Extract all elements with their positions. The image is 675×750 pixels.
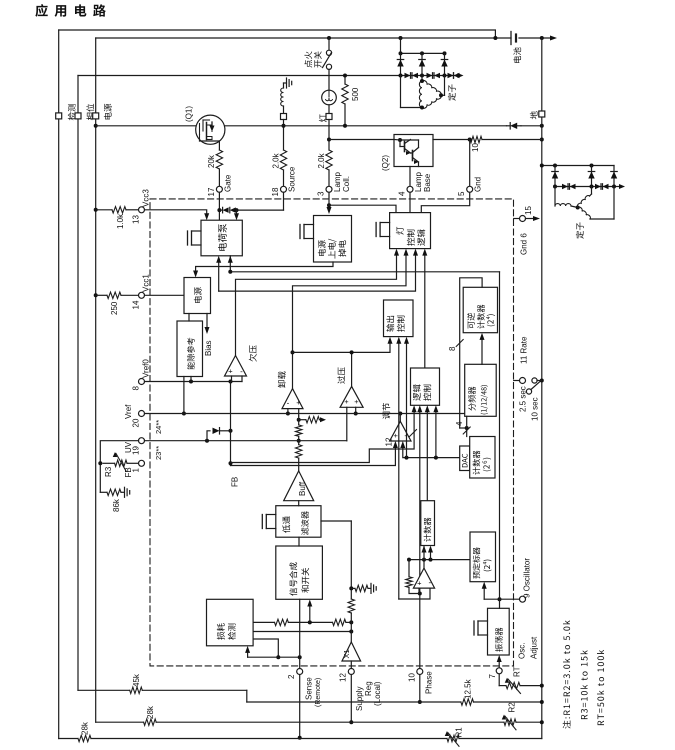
resistor 20k gate <box>216 150 222 169</box>
block 逻辑控制 logic control <box>411 368 440 405</box>
wire to pin 17 <box>218 169 220 186</box>
svg-text:-: - <box>240 367 243 376</box>
wire OV output up <box>351 352 353 386</box>
wire to pin 18 <box>283 170 285 186</box>
diode bridge2 d3 <box>613 166 615 187</box>
resistor 10 <box>470 136 482 142</box>
block 低通滤波器 low pass filter <box>276 506 321 538</box>
node x1 bleed <box>349 586 353 590</box>
resistor 86k to ground <box>100 491 107 493</box>
svg-text:12: 12 <box>385 437 394 446</box>
potentiometer R2 <box>504 719 516 725</box>
svg-text:Supply: Supply <box>355 687 364 711</box>
wire dump minus to vref line <box>287 409 289 414</box>
svg-text:Coll.: Coll. <box>342 176 351 192</box>
svg-text:Source: Source <box>288 166 297 192</box>
wire powerupdown to power block <box>196 262 333 271</box>
wire pin18 rail to pump <box>236 209 284 211</box>
wire pin13 feed <box>94 208 98 212</box>
wire updown top jog <box>460 278 482 428</box>
IC boundary dashed box <box>150 199 514 666</box>
wire 8bus to 4bus <box>460 427 467 429</box>
wire net-detect vertical x=58.7 <box>58 30 60 739</box>
wire coil to terminal <box>283 106 285 113</box>
node source rail junction <box>282 124 286 128</box>
svg-text:Gate: Gate <box>224 174 233 192</box>
block 损耗检测 loss detection <box>207 599 254 646</box>
wire power-bandgap <box>188 314 190 322</box>
svg-text:2: 2 <box>287 674 296 679</box>
svg-text:-: - <box>287 399 290 408</box>
svg-text:UV: UV <box>124 441 133 453</box>
pin 2 Sense Remote <box>297 669 303 675</box>
pin 12 Supply Reg Local <box>348 669 354 675</box>
terminal 相位 <box>75 113 81 119</box>
svg-text:14: 14 <box>132 300 141 309</box>
potentiometer R1 <box>447 735 459 741</box>
wire pin3 branch to lamp logic <box>327 203 331 207</box>
diode pair bridge1 mid b <box>422 75 445 77</box>
wire loss line3 y=639 <box>253 639 278 657</box>
svg-text:23**: 23** <box>154 446 163 460</box>
terminal 检测 <box>56 113 62 119</box>
block 振荡器 oscillator <box>488 608 510 655</box>
wire step to 702 <box>246 690 248 702</box>
svg-text:R1: R1 <box>455 727 464 738</box>
note text <box>563 620 571 728</box>
block 电源上电/掉电 <box>314 216 352 263</box>
wire divider to updown <box>481 340 483 365</box>
node gate-pump junction <box>217 208 221 212</box>
wire pin2 vertical <box>299 599 301 668</box>
wire arrow battery feed <box>550 36 557 41</box>
op-amp X1 supply buffer <box>342 642 361 661</box>
bus line2 y=279.3 from UV comparator <box>236 256 397 356</box>
wire x1 chain top <box>321 520 351 522</box>
wire logic a2 to phase node <box>419 412 421 594</box>
diode bridge1 d3 <box>444 53 446 75</box>
svg-text:RT: RT <box>513 666 522 677</box>
bus tick 12 <box>410 430 417 437</box>
svg-text:Bias: Bias <box>204 340 213 356</box>
op-amp 卸载 dump comparator <box>282 389 303 409</box>
wire to logic control a1 <box>231 412 415 463</box>
svg-text:28k: 28k <box>146 705 155 719</box>
wire Q2 emitter to pin4 <box>409 167 411 187</box>
pin 13 Vcc3 <box>139 207 145 213</box>
diode bridge1 d1 <box>400 53 402 75</box>
diode bridge2 d1 <box>554 166 556 187</box>
wire pin5 to lamp logic <box>421 192 469 212</box>
wire loss line2 y=631.5 <box>253 631 351 633</box>
svg-text:17: 17 <box>207 187 216 196</box>
svg-text:Reg: Reg <box>364 681 373 696</box>
bus tick 4 <box>463 427 470 434</box>
wire pin12 down <box>350 675 352 723</box>
bridge2 top bus y=165.5 <box>542 165 614 167</box>
pin 17 Gate <box>216 186 222 192</box>
wire drain rail y=125.8 <box>94 124 98 128</box>
wire pin7 rt rail y=685.6 <box>498 675 500 686</box>
svg-text:15: 15 <box>524 206 533 215</box>
svg-text:10: 10 <box>408 673 417 682</box>
wire osc top <box>499 599 501 608</box>
pin 8 Vref0 <box>139 379 145 385</box>
wire lamp to Q2 collector y=139.5 <box>329 139 394 141</box>
pin 1 FB <box>139 460 145 466</box>
svg-text:Base: Base <box>423 173 432 192</box>
pin 9 Oscillator <box>520 596 526 602</box>
svg-text:Vcc3: Vcc3 <box>142 189 151 207</box>
resistor x1 bleed to ground <box>351 587 355 589</box>
wire DAC to regulator minus <box>403 448 460 458</box>
title 应用电路 <box>35 4 105 17</box>
wire pin14 to power block <box>145 294 185 296</box>
wire rail y=702 <box>247 701 461 703</box>
wire arrow bridge2 out <box>614 186 620 188</box>
svg-text:4: 4 <box>455 421 464 426</box>
svg-text:5: 5 <box>457 191 466 196</box>
svg-text:2.0k: 2.0k <box>272 152 281 168</box>
wire pin8 vref0 line <box>145 381 243 383</box>
svg-text:R2: R2 <box>508 702 517 713</box>
svg-text:8: 8 <box>132 386 141 391</box>
wire pin5 up <box>469 140 471 187</box>
wire pin17 into charge pump <box>218 192 220 220</box>
svg-text:20k: 20k <box>207 154 216 168</box>
diode bridge2 d2 <box>591 166 593 187</box>
svg-text:Lamp: Lamp <box>414 171 423 192</box>
Y stator winding 定子 <box>554 187 556 207</box>
wire counter 4bus <box>466 416 468 436</box>
transistor Q2 darlington <box>394 135 433 167</box>
op-amp phase schmitt <box>413 568 434 588</box>
svg-text:X1: X1 <box>342 649 351 658</box>
svg-text:28k: 28k <box>81 721 90 735</box>
wire outputcontrol a2 schmitt loop <box>398 344 400 600</box>
svg-text:Vref: Vref <box>124 404 133 419</box>
wire FB line to regulator <box>231 448 396 466</box>
svg-text:86k: 86k <box>112 498 121 512</box>
wire osc clock line <box>484 598 499 600</box>
wire gate down <box>218 141 220 150</box>
wire bandgap to vref line <box>183 377 185 414</box>
wire loss to signal block <box>309 606 311 622</box>
wire OV plus from divider <box>299 440 347 442</box>
diode pump d1 <box>219 209 222 211</box>
svg-text:2.0k: 2.0k <box>317 152 326 168</box>
block 电荷泵 charge pump <box>201 220 242 256</box>
pin 4 Lamp Base <box>407 186 413 192</box>
ground stator coil <box>286 78 288 88</box>
wire sense feedback <box>248 656 300 658</box>
svg-text:11 Rate: 11 Rate <box>520 336 529 364</box>
op-amp 过压 overvoltage comparator <box>340 386 363 407</box>
label 定子 bridge2 <box>576 222 584 238</box>
resistor 500 lamp shunt <box>344 76 346 85</box>
svg-text:Adjust: Adjust <box>530 636 539 659</box>
wire pin13 to charge pump <box>145 210 207 213</box>
svg-text:250: 250 <box>110 301 119 315</box>
wire schmitt output rail y=559.6 <box>409 559 470 561</box>
wire Q2 collector rail to bus <box>433 139 470 141</box>
svg-text:24**: 24** <box>154 420 163 434</box>
wire lpf-signal <box>298 537 300 546</box>
pin 10 Phase <box>417 669 423 675</box>
svg-text:(Q2): (Q2) <box>381 155 390 171</box>
svg-text:Vref0: Vref0 <box>142 359 151 378</box>
wire pin3 into IC <box>328 192 330 207</box>
wire divider to buffer <box>298 458 300 471</box>
svg-text:FB: FB <box>231 477 240 487</box>
svg-text:18: 18 <box>271 187 280 196</box>
op-amp 调节 regulator <box>390 421 411 441</box>
transistor Q1 power MOSFET <box>196 115 225 144</box>
svg-text:+: + <box>296 398 301 407</box>
node drain rail at bus <box>540 124 544 128</box>
wire switch to lamp <box>328 70 330 91</box>
node ignition tap <box>327 36 331 40</box>
op-amp 欠压 undervoltage comparator <box>225 356 247 377</box>
wire pin4 into IC <box>409 192 411 212</box>
pin 3 Lamp Coll. <box>326 186 332 192</box>
svg-text:10: 10 <box>471 143 480 152</box>
wire Vref rail y=413.5 <box>145 413 465 415</box>
wire rail 45k y=690.3 <box>78 689 130 691</box>
resistor 1.0k <box>112 207 126 213</box>
pin 14 Vcc1 <box>139 292 145 298</box>
wire top y=30 <box>59 30 496 38</box>
svg-text:1.0k: 1.0k <box>116 213 125 229</box>
wire x1 to pin12 <box>350 661 352 669</box>
wire UV inputs <box>231 376 233 382</box>
wire logic-to-lampcontrol <box>424 256 426 369</box>
diode bridge1 d2 <box>421 53 423 75</box>
svg-text:2.5 sec: 2.5 sec <box>519 386 528 412</box>
diode reverse battery <box>510 123 517 129</box>
wire FB junction vertical <box>230 382 232 466</box>
diode pump d2 <box>230 207 236 213</box>
resistor 2.0k source <box>280 150 286 170</box>
node lamp-Q2 junction <box>327 138 331 142</box>
node dump branch <box>291 350 295 354</box>
switch 点火开关 <box>328 38 330 50</box>
svg-text:(Q1): (Q1) <box>185 106 194 122</box>
svg-text:45k: 45k <box>132 673 141 687</box>
wire outputcontrol a3 <box>406 344 408 458</box>
svg-text:+: + <box>344 397 349 406</box>
block 预定标器 prescaler <box>470 532 496 582</box>
wire battery rail y=38 <box>96 37 511 39</box>
node bridge2 mid junctions <box>553 185 557 189</box>
svg-text:500: 500 <box>351 87 360 101</box>
wire counter clock arrows <box>422 546 427 553</box>
bus tick 8 <box>456 340 463 347</box>
wire phase rail y=75.5 <box>78 75 401 77</box>
label 电池 <box>513 47 521 63</box>
diode pair bridge1 out <box>445 75 460 77</box>
junction dots top rail <box>399 36 403 40</box>
svg-text:9 Oscillator: 9 Oscillator <box>523 558 532 598</box>
wire pin10 vertical <box>419 596 421 669</box>
svg-text:Lamp: Lamp <box>333 171 342 192</box>
wire schmitt out <box>423 560 425 569</box>
wire bias <box>206 314 208 328</box>
wire bus1 right leg <box>499 272 501 599</box>
wire bridge1 col1 top <box>400 38 402 53</box>
pin 15 / Gnd 6 <box>514 218 520 220</box>
potentiometer R3 <box>127 462 139 464</box>
wire logic a4 to dac line <box>435 412 437 458</box>
wire rail 28k y=722.2 <box>96 721 144 723</box>
svg-text:Sense: Sense <box>305 677 314 700</box>
wire arrow bridge1 phase out <box>458 73 464 78</box>
resistor 2.0k lamp coll <box>326 150 332 170</box>
svg-text:(Remote): (Remote) <box>315 678 322 707</box>
resistor divider r1 <box>296 425 302 436</box>
svg-text:+: + <box>354 397 359 406</box>
svg-text:Gnd: Gnd <box>474 177 483 192</box>
wire lpf to buff <box>298 501 300 506</box>
block DAC <box>460 446 470 471</box>
block 可逆计数器 up-down counter <box>463 287 497 332</box>
op-amp Buff <box>284 471 314 501</box>
svg-text:R3: R3 <box>104 466 113 477</box>
resistor x1 series <box>348 599 354 613</box>
block 计数器2e6 <box>470 437 495 479</box>
node vref-regulator <box>398 412 402 416</box>
node phase input <box>418 592 422 596</box>
svg-text:4: 4 <box>398 191 407 196</box>
wire loss line1 y=622.4 <box>253 621 274 623</box>
block 输出控制 output control <box>384 300 414 337</box>
bridge1 top bus y=53.4 <box>401 52 445 54</box>
svg-text:8: 8 <box>448 346 457 351</box>
pin 11 Rate selector <box>514 380 520 382</box>
node divider mid <box>297 439 301 443</box>
resistor 250 <box>107 292 121 298</box>
wire terminal to drain rail <box>283 120 285 151</box>
wire dump to output control <box>293 344 391 353</box>
wire lamp terminal down <box>328 120 330 151</box>
wire pin14 feed <box>94 293 98 297</box>
node bridge1 mid junctions <box>399 74 403 78</box>
wire bandgap to vref0 line <box>190 377 192 382</box>
block 电源 power <box>184 278 211 314</box>
svg-text:-: - <box>428 578 431 587</box>
wire logic a3 to counter <box>426 412 428 501</box>
wire pump top feed <box>236 210 238 213</box>
svg-text:10 sec: 10 sec <box>531 397 540 421</box>
svg-text:+: + <box>394 431 399 440</box>
node bus-q2rail <box>540 138 544 142</box>
label 定子 bridge1 <box>448 84 456 100</box>
resistor divider bleed <box>299 419 306 421</box>
wire ground bus x=541.8 <box>541 38 543 739</box>
wire pin19 external to divider <box>100 441 138 493</box>
delta stator winding 定子 <box>400 76 402 108</box>
svg-text:+: + <box>228 367 233 376</box>
bus line4 y=291.1 pump <box>219 256 416 292</box>
resistor schmitt hysteresis <box>408 560 410 577</box>
terminal 地 <box>539 111 545 117</box>
svg-text:13: 13 <box>132 215 141 224</box>
wire pump out arrow1 <box>229 256 231 272</box>
block 信号合成和开关 signal synth and switch <box>276 546 323 599</box>
svg-text:Osc.: Osc. <box>518 643 527 659</box>
wire pin18 down into IC <box>283 192 285 210</box>
wire schmitt minus loop <box>399 588 430 599</box>
wire lamp to terminal <box>328 105 330 113</box>
svg-text:Gnd 6: Gnd 6 <box>520 233 529 255</box>
wire regulator output <box>399 414 401 422</box>
pin 18 Source <box>281 186 287 192</box>
diode pair bridge2 b <box>592 186 615 188</box>
diode pair bridge1 mid a <box>401 75 423 77</box>
pin 20 Vref <box>139 411 145 417</box>
pin 5 Gnd <box>467 186 473 192</box>
node divider top <box>297 418 301 422</box>
potentiometer RT <box>506 682 520 688</box>
svg-text:12.5k: 12.5k <box>464 678 473 699</box>
wire net-phase vertical x=78 <box>77 76 79 691</box>
wire dump plus to divider <box>298 409 300 416</box>
diode pair bridge2 a <box>555 186 592 188</box>
svg-text:12: 12 <box>339 673 348 682</box>
bus line1 y=271.8 <box>230 271 499 273</box>
terminal 电源 <box>93 113 99 119</box>
wire to pin3 <box>328 170 330 186</box>
wire bottom rail y=738.5 <box>59 738 78 740</box>
block 计数器 counter <box>421 501 435 546</box>
wire UV pin rail y=440.8 <box>145 440 299 442</box>
svg-text:Buff: Buff <box>298 481 307 496</box>
bus line3 y=285.8 from dump comparator <box>293 256 407 389</box>
wire osc to prescaler <box>483 589 485 600</box>
svg-text:7: 7 <box>488 674 497 679</box>
resistor divider r2 <box>296 445 302 459</box>
terminal source <box>281 114 287 120</box>
block 灯控制逻辑 lamp control logic <box>390 213 431 249</box>
svg-text:Phase: Phase <box>425 671 434 694</box>
pin 7 <box>496 668 502 674</box>
terminal lamp <box>326 114 332 120</box>
diode UV clamp <box>207 431 210 441</box>
label 灯 <box>319 114 327 122</box>
battery symbol <box>510 32 512 45</box>
block 分频器 divider <box>465 364 497 416</box>
block 能隙参考 bandgap reference <box>177 321 203 377</box>
pin 19 UV <box>139 438 145 444</box>
wire net-supply vertical x=95.7 <box>95 38 97 722</box>
svg-text:3: 3 <box>317 191 326 196</box>
svg-text:+: + <box>417 579 422 588</box>
svg-text:Vcc1: Vcc1 <box>142 274 151 292</box>
wire OV input stubs <box>346 407 348 441</box>
wire pin7 to osc <box>498 662 500 668</box>
node pin5 tap <box>468 138 472 142</box>
lamp indicator <box>322 90 337 105</box>
inductor stator winding <box>283 83 285 88</box>
